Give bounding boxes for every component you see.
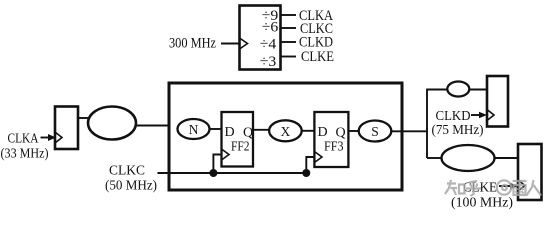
bubble (CLKD domain small ellipse) xyxy=(447,82,469,97)
clock triangle FF5 xyxy=(518,180,525,191)
wire to bottom bubble xyxy=(427,157,442,159)
big box (synchronizer block) xyxy=(169,83,402,190)
clock triangle FF1 xyxy=(55,132,62,143)
flip-flop FF2 xyxy=(222,112,254,167)
人 xyxy=(527,180,542,196)
clock triangle FF3 xyxy=(314,152,322,163)
svg-text:CLKA: CLKA xyxy=(8,131,39,146)
svg-text:FF3: FF3 xyxy=(324,139,344,154)
svg-text:CLKC: CLKC xyxy=(109,163,145,178)
wire X to FF3 xyxy=(302,130,315,132)
bubble (CLKE domain ellipse) xyxy=(442,145,495,171)
svg-text:X: X xyxy=(281,124,291,139)
@ xyxy=(497,180,511,194)
junction dot FF3 clock xyxy=(302,169,310,177)
wire divider out CLKC xyxy=(281,27,297,29)
wire bubble to FF4 xyxy=(469,89,487,91)
bubble (CLKA domain ellipse) xyxy=(88,107,136,140)
乎 xyxy=(466,181,481,196)
wire CLKD arrow xyxy=(471,114,480,116)
svg-text:÷3: ÷3 xyxy=(260,54,277,70)
wire CLKE arrow xyxy=(499,185,511,187)
wire N to FF2 xyxy=(210,128,222,130)
知 xyxy=(445,180,465,195)
wire bubble to big box xyxy=(136,125,169,127)
svg-text:÷6: ÷6 xyxy=(262,20,279,36)
wire bubble to FF5 xyxy=(495,157,519,159)
svg-text:(50 MHz): (50 MHz) xyxy=(105,178,157,193)
wire FF1 to bubble xyxy=(78,117,89,119)
svg-text:FF2: FF2 xyxy=(231,139,250,154)
wire dot to FF3 clock xyxy=(306,157,314,173)
junction dot FF2 clock xyxy=(209,169,217,177)
svg-text:CLKD: CLKD xyxy=(436,108,471,123)
clock triangle FF4 xyxy=(487,110,494,121)
svg-text:N: N xyxy=(189,122,199,137)
svg-text:CLKE: CLKE xyxy=(301,49,334,65)
svg-text:÷4: ÷4 xyxy=(260,37,277,53)
svg-text:(100 MHz): (100 MHz) xyxy=(451,195,513,210)
svg-text:CLKE: CLKE xyxy=(463,180,497,195)
wire to top bubble xyxy=(426,89,447,91)
wire 300MHz to divider xyxy=(221,43,239,45)
node N ellipse xyxy=(178,119,210,139)
wire divider out CLKA xyxy=(281,14,297,16)
svg-text:300 MHz: 300 MHz xyxy=(169,36,216,52)
wire divider out CLKE xyxy=(281,56,297,58)
node X ellipse xyxy=(269,120,302,141)
wire FF3 to S xyxy=(348,130,359,132)
wire FF2 to X xyxy=(253,129,270,131)
svg-text:(75 MHz): (75 MHz) xyxy=(432,122,484,137)
flip-flop FF5 (CLKE output) xyxy=(518,144,542,200)
flip-flop FF1 (CLKA retimer) xyxy=(55,107,78,150)
watermark 知乎@雨人 (drawn strokes, gray) xyxy=(445,180,541,196)
svg-text:S: S xyxy=(371,124,379,139)
wire dot to FF2 clock xyxy=(213,155,221,174)
wire CLKA arrow xyxy=(41,137,50,139)
flip-flop FF4 (CLKD output) xyxy=(487,76,508,127)
wire S to outside xyxy=(391,130,428,132)
雨 xyxy=(513,181,527,195)
clock triangle on divider box input xyxy=(240,38,248,49)
divider box U1 (300 MHz clock divider) xyxy=(240,6,281,70)
node S ellipse xyxy=(359,121,392,142)
wire output vertical split xyxy=(426,90,428,159)
wire divider out CLKD xyxy=(281,41,297,43)
clock triangle FF2 xyxy=(222,149,230,160)
wire CLKC bus xyxy=(158,172,307,174)
svg-text:(33 MHz): (33 MHz) xyxy=(1,146,49,161)
flip-flop FF3 xyxy=(314,112,348,167)
